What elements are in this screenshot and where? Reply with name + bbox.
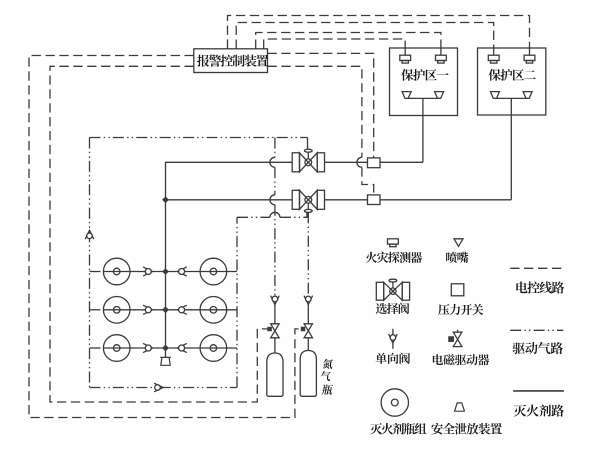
nitrogen cylinder 1 [267,353,283,396]
gas line jump over N2 column [270,212,280,217]
legend label 喷嘴 [446,252,468,263]
fire detector zone1-A [400,48,411,63]
gas stub into bottle row 3 [90,347,104,349]
check valve N2 column 1 [271,296,280,305]
label 保护区二 [489,69,536,81]
check valve row 2 left [143,305,152,314]
label 氮气瓶 (nitrogen cylinder) [320,359,334,395]
gas jump over agent pipe 1 [270,157,275,167]
legend label 选择阀 [376,303,409,314]
legend symbol: solenoid driver [449,330,462,347]
agent bottle group 1B [200,258,227,285]
check valve row 1 right [177,267,186,276]
junction node row 1 [162,268,169,275]
check valve row 1 left [143,267,152,276]
gas line: N2 column 1 riser [274,138,276,296]
selector valve V1 with pilot actuator [292,149,324,172]
key label 灭火剂路 [514,404,564,416]
wire: alarm to zone1 detector A [264,39,406,49]
wire: zone1 nozzle manifold and riser [407,98,440,162]
legend label 灭火剂瓶组 [370,423,426,435]
protected zone 2 box 保护区二 [478,48,546,115]
legend symbol: selector valve [376,279,409,300]
gas line: to valve V2 pilot [237,212,308,217]
pipe: bottle row 2 header [103,309,237,311]
agent bottle group 1A [103,258,130,285]
label 报警控制装置 [197,55,268,67]
agent bottle group 2A [103,297,130,324]
check valve N2 column 2 [304,296,313,305]
nozzle zone2-A [490,92,499,99]
wire: alarm to pressure switch P2 [268,66,374,195]
wire: inner control loop from alarm unit left side to N2 driver Y1 [50,66,268,402]
nozzle zone1-B [435,92,444,99]
alarm control unit box 报警控制装置 [194,49,268,73]
solenoid driver Y2 on N2 cylinder 2 [301,324,312,338]
legend symbol: fire detector [388,239,399,247]
key label 电控线路 [516,281,564,293]
pressure switch P2 [368,195,381,205]
check valve row 3 right [177,343,186,352]
fire detector zone1-B [436,48,447,63]
gas stub into bottle row 1 [90,271,104,273]
selector valve V2 with pilot actuator [292,190,324,212]
label 保护区一 [401,69,448,81]
pipe: bottle row 1 header [103,271,237,273]
junction node row 2 [162,306,169,313]
nozzle zone1-A [402,92,411,99]
key sample: agent line [513,390,564,392]
fire detector zone2-B [524,48,535,63]
check valve on left gas drop (flow up) [85,230,94,239]
legend symbol: agent bottle group [381,389,408,416]
gas line: header to valve V1 pilot [90,138,308,150]
gas jump over agent pipe 2 [270,195,275,205]
legend label 电磁驱动器 [433,354,489,365]
gas line: right riser [236,217,238,387]
legend label 安全泄放装置 [431,423,502,435]
legend symbol: safety relief device [455,403,465,411]
legend label 单向阀 [376,353,410,364]
legend symbol: pressure switch [451,284,464,296]
protected zone 1 box 保护区一 [390,48,458,116]
pipe: manifold tee to selector valve V2 [166,199,293,201]
nitrogen cylinder 2 [300,351,316,397]
check valve on bottom gas run (flow right) [154,383,163,392]
key sample: drive gas line [510,329,563,331]
legend symbol: check valve [389,329,398,349]
wire: alarm to pressure switch P1 [268,53,374,157]
safety relief device on manifold [160,357,171,365]
junction node at valve V2 tee [162,196,169,203]
gas line: left drop [89,138,91,388]
key sample: electric control line [510,267,563,269]
agent bottle group 2B [200,297,227,324]
wire: alarm to zone2 detector A [236,23,494,49]
pipe: N2 column 1 valve-to-cylinder [274,305,276,353]
agent bottle group 3B [200,335,227,362]
check valve row 2 right [177,305,186,314]
gas line: N2 column 2 riser [307,212,309,295]
key label 驱动气路 [513,342,563,354]
agent bottle group 3A [103,335,130,362]
pipe: manifold riser to selector valve V1 [166,162,293,357]
legend label 火灾探测器 [366,252,422,263]
pressure switch P1 [368,158,381,168]
gas stub into bottle row 2 [90,309,104,311]
pipe: valve V2 to pressure switch P2 to zone2 [325,199,512,201]
solenoid driver Y1 on N2 cylinder 1 [268,324,279,338]
junction node row 3 [162,345,169,352]
legend label 压力开关 [438,304,483,315]
pipe: bottle row 3 header [103,347,237,349]
fire detector zone2-A [488,48,499,63]
nozzle zone2-B [523,92,532,99]
wire: outer control loop from alarm unit left side to N2 driver Y2 [29,56,302,418]
wire: alarm to zone1 detector B [256,33,441,49]
wire: zone2 nozzle manifold and riser [495,98,528,199]
gas line: bottom run [90,387,238,389]
pipe: valve V1 to pressure switch P1 to zone1 [325,161,423,163]
check valve row 3 left [143,343,152,352]
pipe: N2 column 2 valve-to-cylinder [307,305,309,351]
legend symbol: nozzle [454,239,463,247]
wire: alarm to zone2 detector B [228,16,530,49]
wire jump over agent pipe 1 [357,157,362,167]
